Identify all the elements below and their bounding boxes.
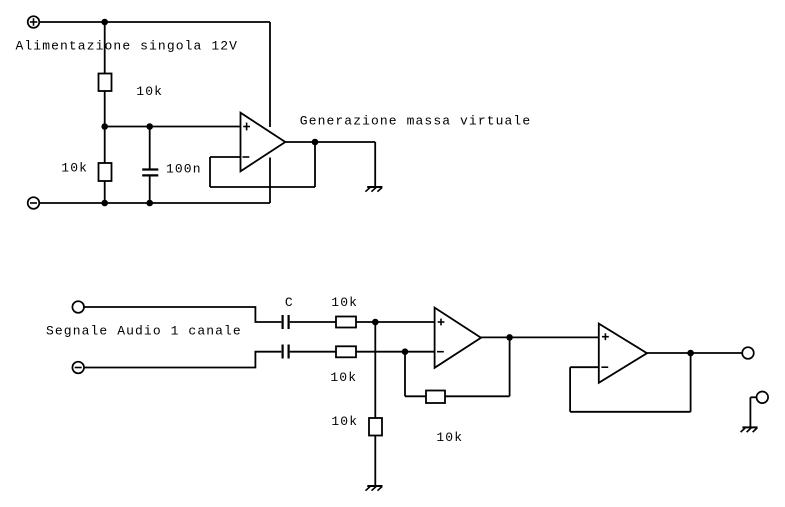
- op-amp U3 second stage: [599, 324, 647, 383]
- svg-text:10k: 10k: [331, 414, 358, 429]
- terminal audio input top: [72, 301, 84, 313]
- node junction top rail: [101, 19, 108, 26]
- wire supply down upper segment: [269, 22, 271, 127]
- wire cap bottom: [149, 176, 151, 203]
- wire bottom rail: [39, 202, 270, 204]
- wire U2 output to U3: [481, 336, 599, 338]
- svg-text:C: C: [285, 295, 294, 310]
- capacitor C1 100n: [142, 170, 158, 176]
- wire R1 to mid rail: [104, 91, 106, 127]
- terminal audio input bottom: [72, 362, 84, 374]
- svg-text:10k: 10k: [436, 430, 463, 445]
- op-amp U1 virtual ground: [241, 113, 286, 172]
- svg-text:100n: 100n: [166, 162, 202, 177]
- resistor R3 10k top row: [336, 317, 356, 328]
- resistor R1 10k upper: [99, 74, 112, 92]
- wire input top: [84, 307, 281, 322]
- wire output to ground: [374, 142, 376, 187]
- resistor R5 10k bias: [369, 418, 382, 436]
- wire bias resistor top: [374, 322, 376, 418]
- ground bias: [366, 486, 383, 491]
- svg-text:10k: 10k: [136, 84, 163, 99]
- wire output ground vertical: [749, 397, 751, 427]
- terminal output ground reference: [757, 392, 769, 404]
- wire R6 to output: [445, 395, 510, 397]
- wire U2 feedback left vertical: [404, 352, 406, 397]
- svg-text:10k: 10k: [331, 295, 358, 310]
- node junction bias resistor: [372, 319, 379, 326]
- capacitor C bottom channel: [283, 345, 289, 359]
- node junction mid rail left: [101, 123, 108, 130]
- wire input bottom: [84, 352, 281, 368]
- wire U3 feedback from inverting input: [570, 366, 599, 368]
- wire into R2: [104, 127, 106, 164]
- op-amp U2 first stage: [435, 308, 481, 368]
- wire U3 feedback left vertical: [569, 367, 571, 412]
- wire U1 output: [285, 141, 375, 143]
- wire R2 to bottom rail: [104, 181, 106, 203]
- node junction bottom rail cap: [146, 200, 153, 207]
- wire bias resistor to ground: [374, 436, 376, 487]
- node U3 output junction: [687, 350, 694, 357]
- wire into R1: [104, 22, 106, 74]
- wire cap top: [149, 127, 151, 170]
- node junction bottom rail R2: [101, 200, 108, 207]
- resistor R6 10k feedback: [426, 391, 445, 404]
- wire output ground horizontal: [750, 396, 756, 398]
- wire cap to R3: [290, 321, 336, 323]
- wire cap to R4: [290, 351, 336, 353]
- resistor R2 10k lower: [99, 163, 112, 181]
- wire U2 feedback right vertical: [509, 337, 511, 396]
- ground virtual mass: [365, 187, 382, 192]
- wire U1 feedback to inverting input: [210, 156, 241, 158]
- wire U2 feedback to R6: [405, 395, 426, 397]
- wire R4 to U2 inverting: [356, 351, 435, 353]
- wire U3 output: [647, 352, 743, 354]
- wire R3 to U2 noninverting: [356, 321, 435, 323]
- wire top rail: [39, 21, 270, 23]
- node U2 output junction: [506, 334, 513, 341]
- capacitor C top channel: [283, 315, 289, 329]
- wire U3 feedback bottom: [570, 411, 691, 413]
- wire U3 feedback right vertical: [690, 353, 692, 412]
- wire supply down lower segment: [269, 158, 271, 204]
- node junction feedback: [402, 348, 409, 355]
- terminal supply negative: [28, 197, 40, 209]
- node junction mid rail cap: [146, 123, 153, 130]
- resistor R4 10k second row: [336, 346, 356, 357]
- wire U1 feedback left vertical: [209, 157, 211, 187]
- wire U1 feedback bottom: [210, 186, 315, 188]
- svg-text:10k: 10k: [330, 370, 357, 385]
- wire mid rail: [105, 126, 241, 128]
- svg-text:Generazione massa virtuale: Generazione massa virtuale: [300, 114, 531, 129]
- ground output reference: [741, 427, 758, 432]
- wire U1 feedback right vertical: [314, 142, 316, 187]
- svg-text:Alimentazione singola 12V: Alimentazione singola 12V: [16, 39, 239, 54]
- svg-text:Segnale Audio 1 canale: Segnale Audio 1 canale: [46, 324, 242, 339]
- svg-text:10k: 10k: [61, 161, 88, 176]
- terminal +12V supply positive: [28, 16, 40, 28]
- terminal audio output: [742, 347, 754, 359]
- node U1 output junction: [312, 139, 319, 146]
